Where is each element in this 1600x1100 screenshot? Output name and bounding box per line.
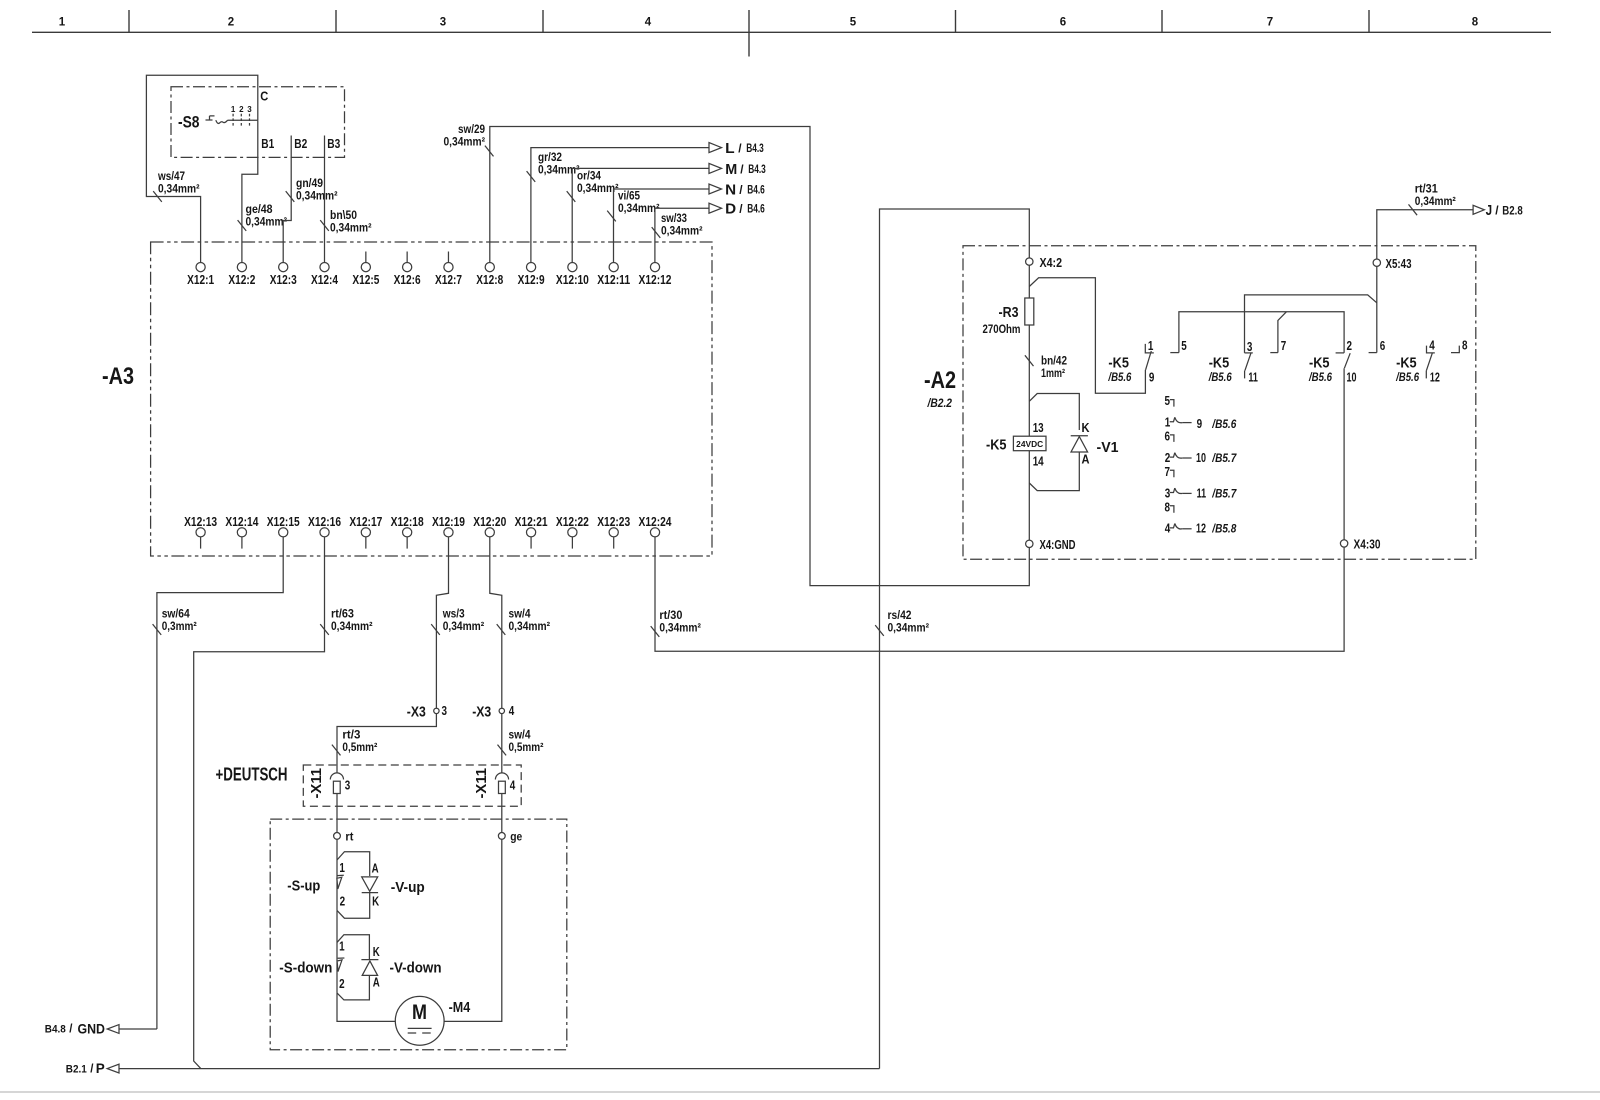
K5 contact pin 8 [1451,338,1468,353]
node rt [334,830,354,844]
svg-text:4: 4 [510,777,516,792]
svg-text:A: A [373,975,380,990]
wire S-up to S-down [336,910,338,993]
wire rt to S-up [336,839,338,910]
svg-text:M: M [725,162,737,178]
svg-text:/B5.7: /B5.7 [1211,488,1236,500]
wire K5 contact 7 joint [1278,312,1287,353]
sheet reference B4.8 / GND [45,1020,119,1036]
label K5 /B5.6 (c) [1308,355,1332,384]
K5 cross-ref pin 5 [1165,393,1174,408]
connector X11 pin 4 [473,768,516,799]
svg-text:7: 7 [1165,464,1171,479]
wire X11:3 to rt node [336,794,338,833]
svg-text:0,34mm²: 0,34mm² [296,189,338,203]
svg-text:-V-down: -V-down [390,960,442,977]
svg-text:0,34mm²: 0,34mm² [509,619,551,633]
svg-text:GND: GND [78,1020,106,1036]
K5 cross-ref pin 7 [1165,464,1174,479]
arrow L / B4.3 [709,141,764,157]
K5 pin 4 [1429,338,1435,353]
svg-text:X12:9: X12:9 [518,272,545,287]
V-up branch frame [337,852,370,919]
K5 contact pin 5 [1170,338,1187,353]
K5 pin 9 [1149,369,1155,384]
svg-text:X4:30: X4:30 [1354,537,1381,552]
svg-text:X4:GND: X4:GND [1040,537,1076,552]
svg-text:X12:16: X12:16 [308,514,341,529]
pushbutton S-down [279,958,344,977]
svg-text:8: 8 [1462,338,1468,353]
svg-text:C: C [260,89,269,104]
wire branch X4:2 to K5 contact 9 [1029,278,1145,394]
pushbutton S-up [287,875,344,894]
wire vi/65 X12:11 to N [607,189,709,263]
V-up pin A [372,861,379,876]
wire K5 contact 10 to X4:30 [1343,368,1345,540]
svg-text:A: A [1082,452,1091,467]
label K5 /B5.6 (a) [1108,355,1132,384]
svg-text:24VDC: 24VDC [1016,440,1043,449]
terminal X12:23 [597,514,630,549]
svg-text:X5:43: X5:43 [1386,256,1412,271]
wire sw/33 X12:12 to D [652,208,709,262]
svg-text:X12:8: X12:8 [476,272,503,287]
S-up pin 2 [340,894,346,909]
svg-text:0,34mm²: 0,34mm² [330,221,372,235]
wire net P B2.1 [119,1068,880,1070]
label ge/48 [246,202,288,229]
svg-text:3: 3 [247,105,252,114]
svg-text:X12:19: X12:19 [432,514,465,529]
svg-text:X12:13: X12:13 [184,514,217,529]
K5 cross-ref contact 1-9 /B5.6 [1165,415,1237,431]
svg-text:1: 1 [339,939,345,954]
V-up pin K [372,894,379,909]
svg-text:X12:7: X12:7 [435,272,462,287]
K5 cross-ref contact 3-11 /B5.7 [1165,485,1237,500]
svg-text:B4.6: B4.6 [747,204,765,216]
svg-text:B2: B2 [294,136,307,151]
label rt/63 [331,607,373,634]
wire sw/4 X12:20 to X3:4 [490,537,506,708]
label rs/42 [888,608,930,635]
terminal X12:3 [270,263,297,287]
svg-text:/B2.2: /B2.2 [927,396,953,410]
controller A3 enclosure [151,242,712,556]
svg-text:0,34mm²: 0,34mm² [659,621,701,635]
svg-text:10: 10 [1196,450,1206,465]
svg-text:0,34mm²: 0,34mm² [618,201,660,215]
svg-text:0,34mm²: 0,34mm² [538,163,580,177]
svg-text:0,3mm²: 0,3mm² [162,619,197,633]
wire K5 contact 5 to contact 2 [1179,312,1344,353]
label -A3 [102,363,134,390]
label sw/4 0,5mm² [509,728,544,755]
svg-text:-S-down: -S-down [279,960,332,977]
diode V-up [362,877,425,896]
label ws/47 [157,169,199,196]
svg-text:X12:1: X12:1 [187,272,214,287]
svg-text:X12:11: X12:11 [597,272,630,287]
svg-text:-S-up: -S-up [287,878,320,895]
svg-text:2: 2 [239,105,244,114]
K5 contact pin 6 [1369,338,1386,353]
wire or/34 X12:10 to M [567,168,709,262]
wire gr/32 X12:9 to L [527,148,709,263]
svg-text:X4:2: X4:2 [1040,255,1063,270]
svg-text:2: 2 [1347,338,1353,353]
svg-text:13: 13 [1033,420,1044,435]
svg-text:X12:15: X12:15 [267,514,300,529]
svg-text:6: 6 [1060,17,1066,29]
svg-text:L: L [725,141,735,157]
svg-text:8: 8 [1472,17,1479,29]
svg-text:0,34mm²: 0,34mm² [661,224,703,238]
terminal X4:GND [1026,537,1076,552]
svg-text:/B5.7: /B5.7 [1211,453,1236,465]
label ws/3 [442,607,484,634]
terminal X4:2 [1026,255,1062,270]
node ge [498,830,522,844]
svg-text:5: 5 [850,17,857,29]
svg-text:1: 1 [59,17,66,29]
label rt/3 [342,728,377,755]
svg-text:4: 4 [1429,338,1435,353]
K5 pin 1 [1148,338,1154,353]
svg-text:/B5.6: /B5.6 [1308,372,1332,384]
svg-text:6: 6 [1380,338,1386,353]
terminal X12:15 [267,514,300,537]
svg-text:3: 3 [1165,485,1171,500]
K5 contact pin 7 [1270,338,1286,353]
label rt/31 [1415,182,1456,209]
terminal X12:17 [349,514,382,549]
label K5 /B5.6 (b) [1208,355,1232,384]
diode V1 [1071,420,1119,467]
wire bn\50 S8:B3 to X12:4 [320,136,329,263]
S-down pin 1 [339,939,345,954]
svg-text:-K5: -K5 [1309,355,1330,372]
wire rt/63 X12:16 to B2.1/P [194,537,329,1069]
svg-text:B3: B3 [327,136,340,151]
label sw/33 [661,211,703,238]
S-up pin 1 [339,860,345,875]
wire sw/64 X12:15 to B4.8/GND [153,537,284,1029]
S-down pin 2 [339,976,345,991]
svg-text:-V-up: -V-up [391,879,425,896]
wire ge/48 S8:B1 to X12:2 [238,120,258,262]
switch S8 enclosure [171,87,345,158]
wire rs/42 B2.1/P to X4:2 [875,209,1029,1069]
svg-text:0,34mm²: 0,34mm² [246,215,288,229]
connector X11 enclosure [303,765,521,806]
svg-text:X12:22: X12:22 [556,514,589,529]
svg-text:3: 3 [440,17,446,29]
K5 contact 4-12 [1426,346,1435,379]
terminal X12:21 [515,514,548,549]
motor assembly enclosure [270,819,567,1050]
terminal X12:5 [352,252,379,287]
svg-text:4: 4 [509,703,515,718]
svg-text:B4.3: B4.3 [746,143,764,155]
terminal X12:20 [473,514,506,537]
svg-text:0,5mm²: 0,5mm² [342,740,377,754]
terminal X3:3 [407,703,447,721]
svg-text:-M4: -M4 [449,999,471,1016]
diode V-down [361,960,441,977]
K5 pin 3 [1247,339,1253,354]
svg-text:-V1: -V1 [1097,439,1119,456]
terminal X12:24 [639,514,673,537]
svg-text:1: 1 [231,105,236,114]
svg-text:-X3: -X3 [472,704,491,721]
svg-text:-A3: -A3 [102,363,134,390]
svg-text:11: 11 [1197,485,1207,500]
diode V1 branch wire [1029,394,1079,491]
svg-text:12: 12 [1196,521,1206,536]
svg-text:X12:24: X12:24 [639,514,673,529]
svg-text:-A2: -A2 [924,367,956,394]
connector X11 pin 3 [308,768,350,799]
label or/34 [577,169,619,196]
terminal X12:22 [556,514,589,549]
svg-text:7: 7 [1267,17,1273,29]
wire rt/30 X12:24 to X4:30 [651,537,1344,651]
svg-text:X12:2: X12:2 [228,272,255,287]
svg-text:rt: rt [345,830,353,844]
svg-text:8: 8 [1165,499,1171,514]
terminal X12:18 [391,514,424,549]
svg-text:B2.1: B2.1 [66,1063,87,1075]
svg-text:3: 3 [345,777,351,792]
svg-text:2: 2 [340,894,346,909]
svg-text:X12:5: X12:5 [352,272,379,287]
terminal X4:30 [1340,537,1380,552]
K5 pin 2 [1347,338,1353,353]
wire K5 contact 3 to contact 6 [1245,295,1377,353]
terminal X12:12 [639,263,672,287]
wire sw/29 X12:8 to X4:GND [485,127,1029,586]
svg-text:B4.6: B4.6 [747,184,765,196]
terminal X12:14 [225,514,259,549]
K5 pin 12 [1430,370,1440,385]
svg-text:-R3: -R3 [999,304,1019,321]
S8 pin B3 [327,136,340,151]
V-down pin K [373,944,380,959]
svg-text:0,34mm²: 0,34mm² [443,619,485,633]
label -S8 [178,114,200,132]
relay coil K5 24VDC [986,436,1046,453]
terminal X12:6 [394,252,421,287]
svg-text:5: 5 [1165,393,1171,408]
svg-text:270Ohm: 270Ohm [983,322,1021,336]
label sw/4 [509,607,551,634]
K5 contact 2-10 [1336,353,1351,368]
terminal X12:9 [518,263,545,287]
svg-text:D: D [725,202,736,218]
svg-text:X12:6: X12:6 [394,272,421,287]
svg-text:X12:10: X12:10 [556,272,589,287]
svg-text:X12:3: X12:3 [270,272,297,287]
wire motor M4 to ge node [444,839,502,1021]
svg-text:+DEUTSCH: +DEUTSCH [216,765,288,785]
svg-text:11: 11 [1248,369,1258,384]
arrow M / B4.3 [709,162,766,178]
svg-text:-K5: -K5 [1209,355,1230,372]
wire ws/3 X12:19 to X3:3 [431,537,448,708]
svg-text:0,34mm²: 0,34mm² [577,181,619,195]
terminal X12:16 [308,514,341,537]
terminal X12:4 [311,263,339,287]
V-down branch frame [337,935,369,1000]
sheet reference B2.1 / P [66,1060,119,1076]
svg-text:B2.8: B2.8 [1502,205,1523,217]
svg-text:10: 10 [1347,369,1357,384]
terminal X12:1 [187,263,214,287]
S8 position labels 1 2 3 [231,105,252,114]
label gr/32 [538,150,580,177]
K5 cross-ref contact 2-10 /B5.7 [1165,450,1237,465]
K5 contact 3-11 [1245,353,1253,379]
svg-text:-K5: -K5 [1396,355,1417,372]
svg-text:X12:12: X12:12 [639,272,672,287]
svg-text:X12:18: X12:18 [391,514,424,529]
wire X11:4 to ge node [501,794,503,833]
svg-text:0,34mm²: 0,34mm² [331,619,373,633]
svg-text:N: N [725,182,736,198]
terminal X12:7 [435,252,462,287]
S8 pin B1 [261,136,274,151]
wire to B4.8/GND [119,1028,157,1030]
svg-text:X12:20: X12:20 [473,514,506,529]
wire X5:43 to K5 contact 6 [1376,266,1378,352]
svg-text:1: 1 [339,860,345,875]
resistor R3 [983,298,1034,336]
label gn/49 [296,176,338,203]
svg-text:K: K [1082,420,1091,435]
svg-text:B4.3: B4.3 [748,164,766,176]
svg-text:A: A [372,861,379,876]
svg-text:2: 2 [1165,450,1171,465]
label -A2 [924,367,956,410]
wire gn/49 S8:B2 to X12:3 [283,136,294,263]
label K5 /B5.6 (d) [1395,355,1419,384]
K5 coil pin 13 [1033,420,1044,435]
label sw/64 [162,607,197,634]
terminal X12:2 [228,263,255,287]
label +DEUTSCH [216,765,288,785]
terminal X3:4 [472,703,515,721]
svg-text:-X11: -X11 [308,768,325,799]
svg-text:0,34mm²: 0,34mm² [444,135,486,149]
terminal X12:13 [184,514,217,549]
wire rt/3 X3:3 to X11:3 [332,714,437,773]
svg-text:K: K [372,894,379,909]
svg-text:14: 14 [1033,453,1045,468]
K5 coil pin 14 [1033,453,1045,468]
svg-text:/B5.6: /B5.6 [1108,372,1132,384]
svg-text:2: 2 [228,17,234,29]
V-down pin A [373,975,380,990]
svg-text:-S8: -S8 [178,114,200,132]
label bn\50 [330,208,372,235]
wire S-down to motor M4 [337,993,395,1022]
svg-text:B4.8: B4.8 [45,1024,66,1036]
K5 cross-ref pin 8 [1165,499,1174,514]
terminal X12:10 [556,263,589,287]
terminal X12:19 [432,514,465,537]
svg-text:2: 2 [339,976,345,991]
arrow J / B2.8 [1473,203,1523,219]
svg-text:3: 3 [1247,339,1253,354]
svg-text:P: P [96,1060,105,1076]
svg-text:0,34mm²: 0,34mm² [158,182,200,196]
S8 pin C [260,89,269,104]
svg-text:M: M [412,1001,427,1024]
svg-text:J: J [1486,203,1493,219]
label sw/29 [444,122,486,149]
svg-text:9: 9 [1149,369,1155,384]
svg-text:X12:17: X12:17 [349,514,382,529]
wire sw/4 X3:4 to X11:4 [498,714,507,773]
svg-text:0,34mm²: 0,34mm² [888,621,930,635]
svg-text:1mm²: 1mm² [1041,366,1065,380]
svg-text:6: 6 [1165,429,1171,444]
label rt/30 [659,608,701,635]
terminal X12:8 [476,263,503,287]
K5 pin 10 [1347,369,1357,384]
svg-text:X12:4: X12:4 [311,272,339,287]
svg-text:7: 7 [1281,338,1287,353]
svg-text:1: 1 [1165,415,1171,430]
terminal X12:11 [597,263,630,287]
svg-text:-K5: -K5 [986,437,1007,454]
motor M4 [395,996,470,1045]
terminal X5:43 [1373,256,1411,271]
svg-text:-X11: -X11 [473,768,490,799]
wire ws/47 X12:1 to S8:C [146,75,257,262]
svg-text:9: 9 [1197,416,1203,431]
svg-text:4: 4 [645,17,652,29]
label vi/65 [618,189,660,216]
svg-text:K: K [373,944,380,959]
wire rt/31 X5:43 to J [1377,204,1473,259]
relay module A2 enclosure [963,246,1476,560]
K5 cross-ref pin 6 [1165,429,1174,444]
svg-text:X12:21: X12:21 [515,514,548,529]
label bn/42 [1041,354,1067,381]
svg-text:12: 12 [1430,370,1440,385]
svg-text:X12:23: X12:23 [597,514,630,529]
svg-text:1: 1 [1148,338,1154,353]
switch S8 symbol [206,114,258,128]
wire bn/42 R3 to K5 coil [1025,325,1034,436]
svg-text:/B5.6: /B5.6 [1395,372,1419,384]
svg-text:-K5: -K5 [1108,355,1129,372]
K5 contact 1-9 [1145,344,1154,370]
svg-text:ge: ge [510,830,522,844]
svg-text:0,34mm²: 0,34mm² [1415,194,1456,208]
K5 cross-ref contact 4-12 /B5.8 [1165,521,1237,536]
svg-text:-X3: -X3 [407,704,426,721]
wire X4:2 to R3 and branch [1028,265,1030,298]
arrow N / B4.6 [709,182,765,198]
K5 pin 11 [1248,369,1258,384]
svg-text:5: 5 [1181,338,1187,353]
arrow D / B4.6 [709,202,765,218]
svg-text:0,5mm²: 0,5mm² [509,740,544,754]
